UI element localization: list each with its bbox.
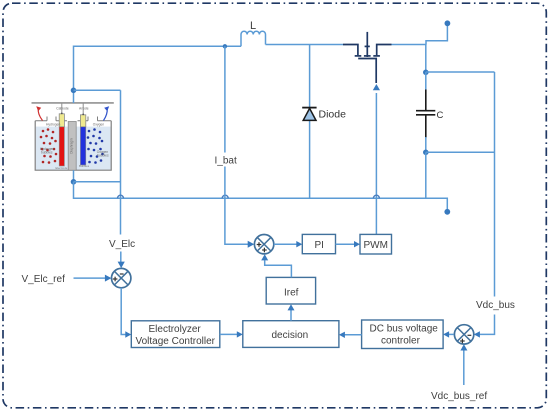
tank outline <box>35 121 111 170</box>
tiny labels <box>40 107 109 158</box>
wire: Iref to S1 <box>265 260 292 277</box>
terminal dot (DC bus +) <box>445 20 451 26</box>
wire: MOSFET source to top-right corner <box>392 44 427 46</box>
svg-text:Bubbles: Bubbles <box>79 164 90 168</box>
block decision <box>243 321 339 348</box>
wire: cap bottom lead to node <box>425 137 427 152</box>
hydrogen bubbles <box>40 128 58 164</box>
node J2 (cap top) <box>423 70 429 76</box>
svg-text:L: L <box>250 20 256 32</box>
wire: S1 to PI <box>274 243 297 245</box>
wire: electrolyzer bottom stub <box>73 170 75 182</box>
svg-text:Anode: Anode <box>79 107 89 111</box>
diaphragm <box>68 122 76 171</box>
wire hop: rail over V_Elc line <box>118 195 124 198</box>
wire hop: rail over I_bat line <box>222 195 228 198</box>
wire: top-right stub with terminal dot <box>426 23 447 45</box>
wire: cap top lead <box>425 72 427 90</box>
label Vdc_bus <box>475 297 517 315</box>
wire: bottom rail <box>74 182 448 210</box>
svg-text:Diaphragm: Diaphragm <box>70 138 74 154</box>
wire: V_Elc sense top horizontal <box>74 89 121 91</box>
wire hop: rail over gate line <box>373 195 379 198</box>
MOSFET Q1 <box>343 32 392 83</box>
wire: electrolyzer top connection <box>73 90 75 103</box>
hydrogen out arrow (red) <box>38 109 42 121</box>
svg-text:decision: decision <box>272 330 309 341</box>
arrow: S2 to DC bus controller <box>449 333 454 335</box>
svg-text:Vdc_bus: Vdc_bus <box>476 300 515 311</box>
svg-text:bubbles: bubbles <box>41 151 53 155</box>
svg-text:bubbles: bubbles <box>97 154 109 158</box>
node J1 (I_bat tap on top rail) <box>223 44 227 48</box>
wire: V_Elc sense vertical line <box>120 90 122 234</box>
wire: top rail right segment (inductor to MOSFET) <box>266 44 344 46</box>
svg-text:Cathode: Cathode <box>56 107 69 111</box>
block DC bus voltage controler <box>362 320 444 349</box>
arrow: Vdc_bus into S2 <box>474 331 480 337</box>
terminal dot (DC bus -) <box>444 209 450 215</box>
wire: decision to Iref <box>290 310 292 321</box>
wire: Vdc_bus_ref input <box>463 351 465 386</box>
wire: capacitor branch from top rail <box>425 45 427 73</box>
summing junction S3 (V_Elc) <box>112 268 131 287</box>
block Electrolyzer Voltage Controller <box>131 321 220 348</box>
node J5 (electrolyzer bottom tap) <box>71 179 77 185</box>
svg-text:PWM: PWM <box>364 240 388 251</box>
liquid electrolyte <box>36 127 111 170</box>
svg-text:Vdc_bus_ref: Vdc_bus_ref <box>431 391 487 402</box>
wire: cap bottom to bottom rail <box>425 152 427 198</box>
oxygen out arrow (blue) <box>104 109 108 121</box>
svg-text:C: C <box>437 110 444 121</box>
block Iref <box>266 277 315 304</box>
svg-text:Iref: Iref <box>284 287 299 298</box>
wire: PWM gate drive line (PWM box up to MOSFET) with up arrowhead <box>375 93 377 234</box>
anode electrode (yellow top + blue body) <box>80 115 85 127</box>
node J4 (electrolyzer top tap) <box>71 88 77 94</box>
svg-text:V_Elc: V_Elc <box>109 239 135 250</box>
wire: V_Elc sense bottom horizontal <box>74 181 121 183</box>
svg-text:PI: PI <box>315 240 324 251</box>
wire: diode branch vertical <box>309 45 311 199</box>
svg-text:Diode: Diode <box>319 109 347 121</box>
arrow: V_Elc into S3 <box>118 262 125 269</box>
inductor L <box>241 31 266 46</box>
summing junction S2 (Vdc bus) <box>454 325 473 344</box>
wire: Vdc_bus vertical sense line <box>475 72 495 334</box>
label I_bat <box>212 153 238 167</box>
oxygen bubbles <box>87 128 104 164</box>
svg-text:controler: controler <box>381 336 421 347</box>
capacitor C <box>416 90 435 139</box>
wire: EVC to decision <box>220 333 238 335</box>
summing junction S1 (current loop) <box>254 235 273 254</box>
svg-text:Electrolyzer: Electrolyzer <box>149 324 202 335</box>
wire: PI to PWM <box>336 243 355 245</box>
svg-text:Electrode: Electrode <box>56 166 68 170</box>
node J3 (cap bottom) <box>423 150 429 156</box>
wire: Vdc bus sense bottom horizontal <box>426 151 495 153</box>
svg-text:DC bus voltage: DC bus voltage <box>370 324 439 335</box>
wire: S3 to EVC <box>121 288 126 335</box>
svg-text:Oxygen: Oxygen <box>93 122 105 126</box>
electrode terminal caps <box>61 113 63 115</box>
wire: I_bat sense line <box>225 46 248 244</box>
diode D1 <box>302 108 316 121</box>
block PWM <box>360 234 392 254</box>
label V_Elc <box>108 237 136 251</box>
busbar <box>32 102 114 104</box>
block PI <box>302 234 335 253</box>
svg-text:Voltage Controller: Voltage Controller <box>136 336 216 347</box>
svg-text:I_bat: I_bat <box>215 156 237 167</box>
wire: top rail left segment (electrolyzer to inductor) <box>74 46 242 90</box>
cathode electrode (yellow top + red body) <box>59 114 64 127</box>
wire: V_Elc_ref input <box>74 277 106 279</box>
wire: DC bus controller to decision <box>344 334 361 336</box>
svg-text:Hydrogen: Hydrogen <box>46 122 60 126</box>
svg-text:V_Elc_ref: V_Elc_ref <box>22 274 66 285</box>
electrolyzer cell image <box>30 97 115 174</box>
electrode stems <box>61 103 63 115</box>
wire: Vdc bus sense top horizontal <box>426 71 495 73</box>
